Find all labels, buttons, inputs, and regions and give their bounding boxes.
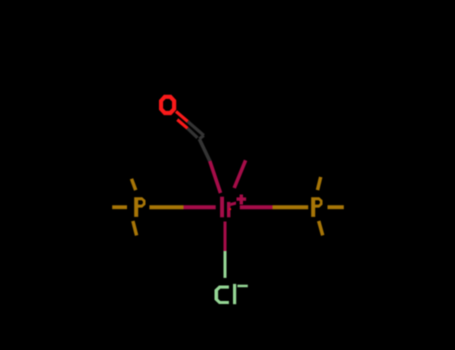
bond C-Ir, C half (gray) <box>199 139 210 161</box>
right P methyl stub, right <box>328 205 344 209</box>
left P methyl stub, down <box>133 221 137 235</box>
atom label Ir: letter I <box>220 197 224 218</box>
carbonyl C=O double bond, inner line, O half (red) <box>177 120 187 129</box>
carbonyl C=O double bond, outer line, C half (gray) <box>188 122 204 136</box>
bond Ir-Cl, Ir half (crimson) <box>224 222 227 252</box>
atom label Cl: letter l <box>233 284 236 304</box>
atom label Ir: letter r stem <box>227 202 230 217</box>
bond Ir-P right, P half (olive) <box>273 205 309 209</box>
bond Ir-P left, Ir half (crimson) <box>184 205 216 209</box>
charge plus on Ir, vertical bar <box>240 195 243 205</box>
right P methyl stub, down <box>319 221 323 235</box>
left P methyl stub, left <box>112 205 127 209</box>
right P methyl stub, up <box>318 177 321 190</box>
carbonyl C vertex elbow connector (gray) <box>199 135 204 139</box>
carbonyl C=O double bond, inner line, C half (gray) <box>188 128 198 138</box>
charge minus on Cl <box>237 285 247 288</box>
charge plus on Ir, horizontal bar <box>237 197 247 200</box>
bond C-Ir, Ir half (crimson) <box>210 161 221 193</box>
left P methyl stub, up <box>132 179 136 190</box>
bond Ir-CH3 stub (crimson) <box>234 160 245 188</box>
small red dot artifact right of Ir <box>229 208 231 210</box>
carbonyl C=O double bond, outer line, O half (red) <box>176 111 188 121</box>
atom label P left (phosphine) <box>134 197 145 217</box>
atom label Ir: letter r arm <box>230 202 236 207</box>
atom label O (carbonyl oxygen) <box>159 95 176 115</box>
bond Ir-P right, Ir half (crimson) <box>240 205 273 209</box>
atom label P right (phosphine) <box>311 197 322 217</box>
bond Ir-Cl, Cl half (green) <box>224 251 227 278</box>
atom label Cl: letter C <box>215 286 229 305</box>
bond Ir-P left, P half (olive) <box>149 205 183 209</box>
